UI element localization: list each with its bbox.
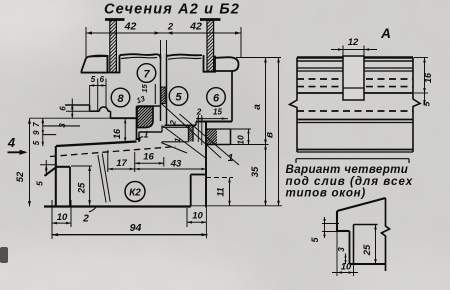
dimensions 7 9 5 [42, 118, 44, 146]
svg-text:3: 3 [58, 123, 67, 128]
dimension 10 right [186, 208, 188, 227]
svg-text:10: 10 [341, 262, 352, 273]
dimension 94 [52, 234, 208, 236]
svg-text:4: 4 [7, 135, 16, 150]
dimensions 2 and 15 [196, 118, 228, 120]
dimension 11 [206, 177, 233, 179]
scan smudge left edge [0, 247, 8, 263]
svg-text:2: 2 [167, 22, 174, 33]
callout circle K2 [125, 182, 145, 202]
svg-text:16: 16 [112, 128, 122, 139]
svg-text:10: 10 [236, 135, 246, 145]
svg-text:в: в [265, 132, 276, 138]
svg-text:10: 10 [57, 212, 68, 223]
svg-text:8: 8 [117, 93, 124, 105]
rebate slot lines [154, 84, 156, 104]
svg-text:А: А [380, 26, 391, 41]
svg-text:9: 9 [32, 130, 41, 135]
svg-text:16: 16 [423, 72, 433, 83]
right frame block [167, 55, 203, 56]
left frame block (koробка) [82, 56, 108, 73]
dimensions 16 and 5 right [414, 57, 428, 59]
extension lines left [30, 117, 111, 119]
svg-text:94: 94 [130, 222, 142, 234]
dimensions 17 16 43 [134, 152, 136, 172]
bottom dimensions [98, 155, 106, 203]
svg-text:2: 2 [196, 108, 202, 117]
svg-text:5: 5 [422, 101, 432, 106]
window sill and drip ledge [56, 142, 137, 147]
right side dimensions a, v, 35, 10 [236, 57, 281, 59]
callout circle 6 [207, 88, 226, 107]
svg-text:1: 1 [228, 153, 234, 164]
svg-text:16: 16 [143, 152, 154, 163]
svg-text:2: 2 [82, 214, 89, 225]
svg-text:7: 7 [32, 122, 41, 127]
svg-text:52: 52 [15, 171, 26, 182]
dimension 5 drip [45, 160, 47, 176]
leader lines to item 1 [161, 103, 221, 158]
svg-text:3: 3 [337, 247, 346, 252]
screw rod left (hatched) [105, 18, 125, 21]
svg-text:15: 15 [213, 108, 222, 117]
svg-text:43: 43 [170, 159, 182, 170]
note text: Вариант четверти под слив [296, 158, 409, 160]
caulked gap seal between blocks [166, 54, 168, 125]
hatched support block [137, 107, 153, 128]
screw rod right (hatched) [200, 18, 221, 21]
svg-text:35: 35 [250, 166, 261, 177]
svg-text:42: 42 [189, 21, 202, 33]
svg-text:25: 25 [77, 182, 88, 194]
svg-text:10: 10 [192, 211, 203, 222]
svg-text:5: 5 [175, 91, 182, 103]
svg-text:1: 1 [143, 130, 148, 140]
dimension 25 [89, 166, 91, 205]
svg-text:25: 25 [362, 244, 373, 256]
detail: quarter under drip profile [337, 198, 386, 211]
svg-text:5: 5 [32, 140, 41, 145]
svg-text:6: 6 [59, 106, 68, 111]
dimension 52 [29, 118, 31, 206]
svg-text:типов окон): типов окон) [286, 186, 366, 199]
dimension 16 vertical [124, 118, 126, 142]
callout circle 8 [111, 88, 130, 107]
svg-text:12: 12 [348, 37, 359, 48]
svg-text:5: 5 [91, 75, 96, 84]
svg-text:Сечения А2 и Б2: Сечения А2 и Б2 [104, 2, 240, 18]
callout circle 7 [137, 64, 156, 83]
svg-text:42: 42 [124, 21, 137, 33]
svg-text:5: 5 [34, 181, 44, 186]
svg-text:7: 7 [143, 68, 150, 80]
svg-text:15: 15 [140, 84, 149, 93]
callout circle 5 [169, 87, 188, 106]
svg-text:6: 6 [213, 92, 220, 104]
dimension 12 [342, 46, 344, 58]
svg-text:а: а [252, 104, 263, 110]
svg-text:6: 6 [100, 75, 105, 84]
dimensions 6 and 3 [71, 99, 73, 119]
svg-text:К2: К2 [129, 188, 141, 199]
svg-text:11: 11 [216, 187, 226, 196]
dimension 10 left [51, 200, 53, 239]
dimension chain 42 / 2 / 42 [86, 32, 241, 34]
svg-text:17: 17 [116, 158, 127, 169]
sill stub [139, 131, 162, 133]
wall quarter (hatched) right side [205, 122, 207, 208]
